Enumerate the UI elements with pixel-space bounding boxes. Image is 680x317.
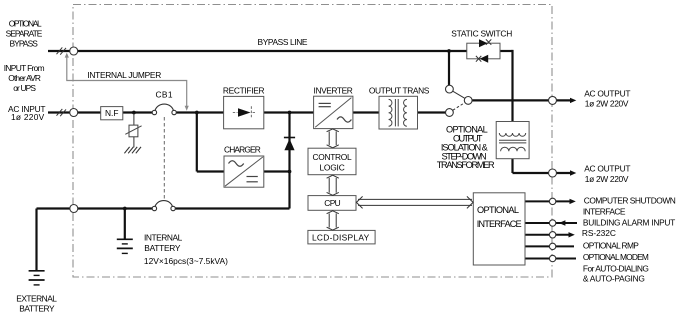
svg-text:TRANSFORMER: TRANSFORMER xyxy=(437,160,495,170)
svg-text:LOGIC: LOGIC xyxy=(319,162,344,172)
svg-text:OPTIONAL: OPTIONAL xyxy=(477,205,519,215)
svg-text:LCD-DISPLAY: LCD-DISPLAY xyxy=(312,233,370,243)
svg-text:INVERTER: INVERTER xyxy=(314,85,353,95)
svg-text:OUTPUT TRANS: OUTPUT TRANS xyxy=(369,85,430,95)
svg-text:INTERNAL JUMPER: INTERNAL JUMPER xyxy=(87,70,161,80)
svg-text:OPTIONAL MODEM: OPTIONAL MODEM xyxy=(583,252,649,262)
svg-text:1ø 2W 220V: 1ø 2W 220V xyxy=(585,99,629,109)
svg-text:12V×16pcs(3~7.5kVA): 12V×16pcs(3~7.5kVA) xyxy=(144,256,228,266)
svg-text:STATIC SWITCH: STATIC SWITCH xyxy=(451,28,512,38)
svg-text:& AUTO-PAGING: & AUTO-PAGING xyxy=(583,274,645,284)
svg-text:COMPUTER SHUTDOWN: COMPUTER SHUTDOWN xyxy=(584,196,676,206)
svg-text:INTERFACE: INTERFACE xyxy=(477,219,522,229)
svg-text:BUILDING ALARM INPUT: BUILDING ALARM INPUT xyxy=(583,218,675,228)
svg-text:For AUTO-DIALING: For AUTO-DIALING xyxy=(583,263,649,273)
svg-text:INPUT From: INPUT From xyxy=(4,63,45,73)
svg-text:RS-232C: RS-232C xyxy=(582,228,616,238)
svg-text:AC OUTPUT: AC OUTPUT xyxy=(584,164,630,174)
svg-text:CHARGER: CHARGER xyxy=(224,145,261,155)
svg-text:Other AVR: Other AVR xyxy=(8,73,41,83)
svg-text:SEPARATE: SEPARATE xyxy=(6,29,43,39)
svg-text:INTERFACE: INTERFACE xyxy=(583,207,626,217)
svg-text:or UPS: or UPS xyxy=(13,83,36,93)
svg-text:OPTIONAL: OPTIONAL xyxy=(9,19,42,29)
svg-text:BYPASS: BYPASS xyxy=(10,39,39,49)
svg-text:1ø 220V: 1ø 220V xyxy=(11,112,45,122)
svg-text:CPU: CPU xyxy=(324,198,340,208)
svg-text:OPTIONAL RMP: OPTIONAL RMP xyxy=(583,241,639,251)
svg-text:INTERNAL: INTERNAL xyxy=(144,232,183,242)
svg-text:BYPASS LINE: BYPASS LINE xyxy=(258,37,308,47)
svg-text:RECTIFIER: RECTIFIER xyxy=(223,86,265,96)
svg-text:EXTERNAL: EXTERNAL xyxy=(16,294,57,304)
svg-text:CB1: CB1 xyxy=(156,90,173,100)
svg-text:N.F: N.F xyxy=(105,108,119,118)
svg-text:CONTROL: CONTROL xyxy=(313,152,352,162)
svg-text:AC OUTPUT: AC OUTPUT xyxy=(584,89,630,99)
svg-text:BATTERY: BATTERY xyxy=(144,243,181,253)
svg-text:1ø 2W 220V: 1ø 2W 220V xyxy=(585,174,629,184)
svg-text:BATTERY: BATTERY xyxy=(19,304,55,314)
